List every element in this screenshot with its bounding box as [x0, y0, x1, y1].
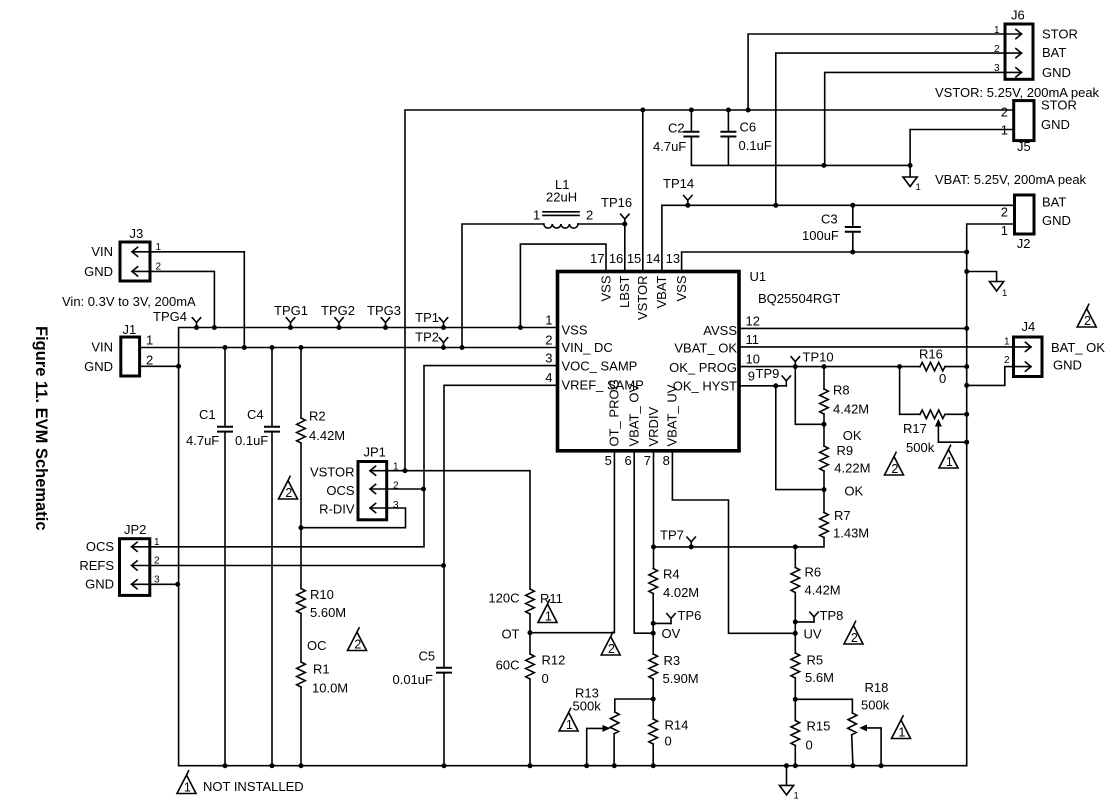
- svg-text:BAT: BAT: [1042, 195, 1066, 210]
- svg-text:1: 1: [154, 537, 160, 548]
- svg-text:2: 2: [608, 642, 615, 656]
- svg-text:R17: R17: [903, 421, 927, 436]
- svg-text:1: 1: [156, 242, 162, 253]
- svg-text:11: 11: [746, 332, 760, 347]
- svg-text:3: 3: [393, 500, 399, 511]
- svg-text:VOC_ SAMP: VOC_ SAMP: [562, 359, 638, 374]
- svg-text:1: 1: [994, 25, 1000, 36]
- svg-text:13: 13: [666, 251, 680, 266]
- svg-text:1: 1: [146, 333, 153, 348]
- svg-text:R16: R16: [919, 347, 943, 362]
- svg-text:0.1uF: 0.1uF: [235, 433, 268, 448]
- svg-text:1: 1: [1001, 223, 1008, 238]
- svg-text:TPG2: TPG2: [321, 303, 355, 318]
- svg-text:JP2: JP2: [124, 522, 146, 537]
- svg-text:AVSS: AVSS: [703, 323, 737, 338]
- svg-text:17: 17: [590, 251, 604, 266]
- svg-text:500k: 500k: [573, 699, 602, 714]
- svg-text:1: 1: [566, 718, 573, 732]
- svg-text:0: 0: [665, 734, 672, 749]
- svg-text:Figure 11. EVM Schematic: Figure 11. EVM Schematic: [32, 326, 50, 531]
- svg-text:4.22M: 4.22M: [834, 461, 870, 476]
- svg-text:GND: GND: [1042, 65, 1071, 80]
- svg-text:15: 15: [627, 251, 641, 266]
- svg-text:R5: R5: [807, 653, 824, 668]
- svg-text:BAT_ OK: BAT_ OK: [1051, 340, 1105, 355]
- svg-text:2: 2: [1001, 105, 1008, 120]
- svg-text:TP2: TP2: [415, 330, 439, 345]
- svg-text:1: 1: [545, 313, 552, 328]
- svg-text:2: 2: [1001, 205, 1008, 220]
- svg-text:2: 2: [154, 556, 160, 567]
- svg-text:500k: 500k: [861, 698, 890, 713]
- svg-text:GND: GND: [85, 577, 114, 592]
- svg-text:1: 1: [1002, 288, 1007, 299]
- svg-text:R4: R4: [663, 567, 680, 582]
- svg-text:GND: GND: [1053, 358, 1082, 373]
- svg-text:5.90M: 5.90M: [663, 671, 699, 686]
- svg-text:VRDIV: VRDIV: [646, 406, 661, 446]
- svg-text:R15: R15: [807, 719, 831, 734]
- svg-text:J3: J3: [130, 226, 144, 241]
- svg-text:4.7uF: 4.7uF: [653, 139, 686, 154]
- svg-text:2: 2: [851, 631, 858, 645]
- svg-text:5.60M: 5.60M: [310, 605, 346, 620]
- svg-text:0: 0: [542, 671, 549, 686]
- svg-text:C3: C3: [821, 212, 838, 227]
- svg-text:OK_ HYST: OK_ HYST: [673, 379, 737, 394]
- svg-text:STOR: STOR: [1041, 98, 1077, 113]
- svg-text:TPG4: TPG4: [153, 309, 187, 324]
- svg-text:C4: C4: [247, 407, 264, 422]
- svg-text:U1: U1: [750, 269, 767, 284]
- svg-text:1: 1: [184, 781, 191, 795]
- svg-text:R11: R11: [540, 591, 563, 606]
- svg-text:TP6: TP6: [678, 608, 702, 623]
- svg-text:2: 2: [393, 481, 399, 492]
- svg-text:R14: R14: [665, 718, 689, 733]
- svg-text:1: 1: [533, 208, 540, 223]
- svg-text:TP8: TP8: [820, 608, 844, 623]
- svg-text:2: 2: [891, 462, 898, 476]
- svg-text:10: 10: [746, 352, 760, 367]
- svg-text:OK: OK: [843, 428, 862, 443]
- svg-text:TP10: TP10: [803, 350, 834, 365]
- svg-text:1: 1: [1001, 123, 1008, 138]
- svg-text:OC: OC: [307, 638, 327, 653]
- svg-text:OT: OT: [501, 627, 519, 642]
- svg-text:2: 2: [545, 333, 552, 348]
- svg-text:6: 6: [624, 453, 631, 468]
- svg-text:C2: C2: [668, 121, 685, 136]
- svg-text:3: 3: [545, 351, 552, 366]
- svg-text:GND: GND: [84, 359, 113, 374]
- svg-text:OCS: OCS: [86, 539, 115, 554]
- svg-text:2: 2: [1084, 314, 1091, 328]
- svg-text:TPG1: TPG1: [274, 303, 308, 318]
- svg-text:2: 2: [156, 262, 162, 273]
- svg-text:1: 1: [794, 791, 799, 800]
- svg-text:C1: C1: [199, 407, 216, 422]
- svg-text:VIN: VIN: [91, 340, 113, 355]
- svg-text:TP14: TP14: [663, 176, 694, 191]
- svg-text:TP7: TP7: [660, 528, 684, 543]
- svg-text:500k: 500k: [906, 440, 935, 455]
- svg-text:4: 4: [545, 370, 552, 385]
- svg-text:2: 2: [1004, 355, 1010, 366]
- svg-text:BQ25504RGT: BQ25504RGT: [758, 291, 840, 306]
- svg-text:OK: OK: [844, 483, 863, 498]
- svg-text:J6: J6: [1011, 8, 1025, 23]
- svg-text:OT_ PROG: OT_ PROG: [607, 379, 622, 446]
- svg-text:TP16: TP16: [601, 195, 632, 210]
- svg-text:LBST: LBST: [617, 275, 632, 308]
- svg-text:5: 5: [605, 453, 612, 468]
- svg-text:0.01uF: 0.01uF: [393, 672, 434, 687]
- svg-text:R7: R7: [834, 508, 851, 523]
- svg-text:0.1uF: 0.1uF: [739, 138, 772, 153]
- svg-text:VBAT_ OK: VBAT_ OK: [674, 341, 737, 356]
- svg-text:R8: R8: [833, 383, 850, 398]
- svg-text:VBAT: 5.25V, 200mA peak: VBAT: 5.25V, 200mA peak: [935, 172, 1087, 187]
- svg-text:2: 2: [994, 44, 1000, 55]
- svg-text:4.42M: 4.42M: [833, 402, 869, 417]
- svg-text:1.43M: 1.43M: [833, 526, 869, 541]
- svg-text:22uH: 22uH: [546, 190, 577, 205]
- svg-text:REFS: REFS: [79, 558, 114, 573]
- svg-text:R10: R10: [310, 587, 334, 602]
- svg-text:JP1: JP1: [364, 445, 386, 460]
- svg-text:2: 2: [586, 208, 593, 223]
- svg-text:7: 7: [644, 453, 651, 468]
- svg-text:16: 16: [609, 251, 623, 266]
- svg-text:OK_ PROG: OK_ PROG: [669, 360, 737, 375]
- svg-text:R18: R18: [865, 680, 889, 695]
- svg-text:0: 0: [806, 738, 813, 753]
- svg-text:2: 2: [354, 638, 361, 652]
- svg-text:12: 12: [746, 314, 760, 329]
- svg-text:J1: J1: [123, 322, 137, 337]
- svg-text:J4: J4: [1022, 319, 1036, 334]
- svg-text:GND: GND: [1042, 213, 1071, 228]
- svg-text:OCS: OCS: [326, 483, 355, 498]
- svg-text:14: 14: [646, 251, 660, 266]
- svg-text:VIN_ DC: VIN_ DC: [562, 340, 613, 355]
- svg-text:1: 1: [898, 726, 905, 740]
- svg-text:1: 1: [916, 182, 921, 193]
- svg-text:4.42M: 4.42M: [309, 428, 345, 443]
- svg-text:4.7uF: 4.7uF: [186, 433, 219, 448]
- svg-text:VSS: VSS: [562, 323, 588, 338]
- svg-text:TP9: TP9: [756, 366, 780, 381]
- svg-text:2: 2: [146, 353, 153, 368]
- svg-text:5.6M: 5.6M: [805, 670, 834, 685]
- svg-text:VBAT: VBAT: [654, 275, 669, 308]
- svg-text:TPG3: TPG3: [367, 303, 401, 318]
- svg-text:R2: R2: [309, 409, 326, 424]
- svg-text:R12: R12: [542, 653, 566, 668]
- svg-text:1: 1: [1004, 337, 1010, 348]
- svg-text:J5: J5: [1017, 139, 1031, 154]
- svg-text:3: 3: [994, 63, 1000, 74]
- svg-text:VIN: VIN: [91, 244, 113, 259]
- svg-text:C6: C6: [740, 120, 757, 135]
- svg-text:10.0M: 10.0M: [312, 681, 348, 696]
- svg-text:R1: R1: [313, 662, 330, 677]
- svg-text:UV: UV: [804, 627, 822, 642]
- svg-text:VBAT_ UV: VBAT_ UV: [665, 384, 680, 446]
- svg-text:VSTOR: VSTOR: [635, 276, 650, 321]
- svg-text:4.02M: 4.02M: [663, 585, 699, 600]
- svg-text:TP1: TP1: [415, 310, 439, 325]
- svg-text:0: 0: [939, 371, 946, 386]
- svg-text:BAT: BAT: [1042, 45, 1066, 60]
- svg-text:VSS: VSS: [598, 275, 613, 301]
- svg-text:R3: R3: [664, 653, 681, 668]
- svg-text:R9: R9: [837, 443, 854, 458]
- svg-text:1: 1: [545, 610, 552, 624]
- svg-text:STOR: STOR: [1042, 27, 1078, 42]
- svg-text:C5: C5: [419, 649, 436, 664]
- svg-text:4.42M: 4.42M: [805, 583, 841, 598]
- svg-text:1: 1: [946, 455, 953, 469]
- svg-text:GND: GND: [1041, 117, 1070, 132]
- svg-text:120C: 120C: [488, 591, 519, 606]
- svg-text:1: 1: [393, 462, 399, 473]
- svg-text:OV: OV: [662, 626, 681, 641]
- svg-text:100uF: 100uF: [802, 228, 839, 243]
- svg-text:NOT INSTALLED: NOT INSTALLED: [203, 779, 304, 794]
- svg-text:GND: GND: [84, 264, 113, 279]
- svg-text:Vin: 0.3V to 3V, 200mA: Vin: 0.3V to 3V, 200mA: [62, 294, 196, 309]
- svg-text:VBAT_ OV: VBAT_ OV: [627, 384, 642, 447]
- svg-text:9: 9: [748, 369, 755, 384]
- svg-text:R6: R6: [805, 565, 822, 580]
- svg-text:3: 3: [154, 575, 160, 586]
- svg-text:2: 2: [285, 486, 292, 500]
- svg-text:R-DIV: R-DIV: [319, 502, 355, 517]
- svg-text:VSS: VSS: [674, 275, 689, 301]
- svg-text:VSTOR: VSTOR: [310, 465, 355, 480]
- svg-text:J2: J2: [1017, 236, 1031, 251]
- svg-text:8: 8: [663, 453, 670, 468]
- svg-text:60C: 60C: [496, 658, 520, 673]
